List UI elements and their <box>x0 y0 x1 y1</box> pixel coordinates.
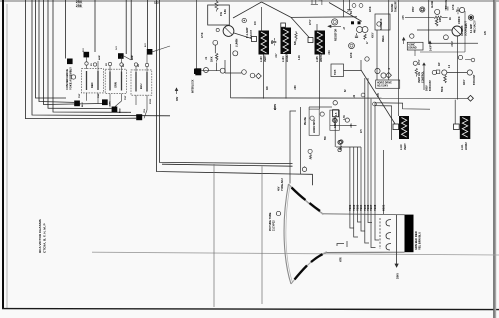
right area riser 2 <box>388 0 390 80</box>
fuse box F1 <box>208 5 230 25</box>
arrow 155V <box>402 38 405 45</box>
svg-text:270V: 270V <box>419 59 421 65</box>
chassis title text <box>38 219 47 253</box>
circled marker C <box>71 75 75 79</box>
svg-text:TILT: TILT <box>98 93 100 98</box>
svg-text:155V: 155V <box>413 6 415 12</box>
svg-text:L104: L104 <box>282 56 285 62</box>
svg-text:1.2K: 1.2K <box>299 55 301 60</box>
tube V5 pins <box>410 30 452 40</box>
CRT wire c <box>357 147 359 214</box>
wire y52 <box>420 51 465 53</box>
svg-text:PIN: PIN <box>272 40 274 44</box>
circled tag V <box>276 211 280 215</box>
svg-text:1MEG: 1MEG <box>383 35 385 42</box>
svg-text:SOUND: SOUND <box>408 48 417 50</box>
svg-text:Y101: Y101 <box>348 204 352 211</box>
convergence small labels <box>79 43 152 113</box>
svg-text:SOUND IF: SOUND IF <box>380 18 383 30</box>
horizontal wire y17 <box>291 16 357 19</box>
svg-text:470K: 470K <box>201 32 204 38</box>
interlock tag <box>194 69 199 74</box>
convergence coil box BLU <box>131 70 152 95</box>
picture tube CRT <box>284 184 404 284</box>
svg-text:H101: H101 <box>382 204 386 211</box>
svg-text:6.8K: 6.8K <box>225 9 227 14</box>
svg-text:L111: L111 <box>461 144 464 150</box>
svg-text:.0047: .0047 <box>451 41 454 47</box>
right text block <box>426 80 433 91</box>
svg-text:47K: 47K <box>377 92 380 97</box>
tube V4 group <box>420 7 474 27</box>
svg-text:SOUND: SOUND <box>392 3 394 12</box>
connector tag 3 <box>102 99 108 105</box>
main bus line right <box>231 97 469 99</box>
svg-text:VERT: VERT <box>404 143 407 150</box>
svg-text:B BOOST: B BOOST <box>474 74 476 85</box>
resistor R20 <box>434 16 448 18</box>
coil L2 <box>281 23 292 62</box>
svg-text:CONVERGENCE: CONVERGENCE <box>65 69 69 90</box>
svg-text:.005: .005 <box>403 15 405 20</box>
stub above bus <box>457 36 459 100</box>
svg-text:WIDTH: WIDTH <box>320 54 323 62</box>
wire bus to L5 tag <box>454 100 456 124</box>
CRT wire h <box>374 103 376 214</box>
right area riser 1 <box>376 30 378 80</box>
interlock blob <box>195 68 201 75</box>
svg-text:82K: 82K <box>295 40 297 45</box>
svg-text:RCA VICTOR CHASSIS: RCA VICTOR CHASSIS <box>38 219 42 253</box>
svg-text:120K: 120K <box>351 52 353 58</box>
connector tag 1 <box>136 114 142 120</box>
diagonal wire 2 <box>329 3 362 22</box>
CRT gun grid steps <box>337 214 380 249</box>
bottom page border <box>2 309 499 310</box>
svg-text:20KV: 20KV <box>397 273 400 279</box>
svg-text:ADJ 15KV: ADJ 15KV <box>377 85 388 88</box>
coil L5 <box>454 116 471 150</box>
connector tag 2 <box>74 101 80 107</box>
svg-text:RESISTOR: RESISTOR <box>335 29 338 41</box>
CRT face arc <box>284 184 291 284</box>
svg-text:560K: 560K <box>442 86 444 92</box>
wire riser E <box>147 0 149 49</box>
cluster diagonal wire 2 <box>124 56 132 60</box>
svg-text:B BOOST: B BOOST <box>446 0 448 9</box>
svg-text:.068: .068 <box>295 85 297 90</box>
resistor R10 <box>215 0 218 12</box>
circled test point <box>332 19 338 25</box>
wire bus 3 <box>36 0 67 98</box>
svg-text:YEL BRN BLU: YEL BRN BLU <box>418 232 422 250</box>
svg-text:T105: T105 <box>335 69 337 75</box>
CRT wire i <box>383 150 385 214</box>
svg-text:HORIZ: HORIZ <box>286 54 289 62</box>
riser x428 <box>429 0 478 43</box>
svg-text:B BOOST: B BOOST <box>429 80 432 91</box>
coil L3 <box>308 24 325 62</box>
convergence lower wires <box>87 93 148 118</box>
CRT neck bottom <box>326 251 404 253</box>
right page edge band <box>493 0 494 318</box>
roof wire left slope <box>233 2 262 18</box>
wire y17 right <box>405 16 434 18</box>
circle tag right edge <box>471 58 475 62</box>
CRT socket lead labels <box>414 231 422 250</box>
terminal cluster with diamond <box>225 60 261 79</box>
diagonal wire to L4 <box>361 70 397 127</box>
diagonal wire 3 <box>291 17 311 39</box>
svg-text:1W: 1W <box>219 12 223 16</box>
bus corner riser <box>230 44 232 98</box>
CRT bottom band dash 1 <box>295 266 308 280</box>
svg-text:4.5MC: 4.5MC <box>408 44 415 47</box>
svg-text:450V: 450V <box>372 32 375 38</box>
horiz transformer block 1 <box>308 107 332 159</box>
svg-text:YEL: YEL <box>144 108 146 113</box>
circled tag on wire bundle <box>338 141 342 145</box>
misc value labels <box>201 1 487 140</box>
wire from L2 to bus <box>285 54 287 99</box>
wire bus 2 <box>32 0 170 116</box>
svg-text:GRN: GRN <box>110 101 112 106</box>
convergence assembly label <box>65 67 73 90</box>
svg-text:INTERLOCK: INTERLOCK <box>193 79 195 93</box>
svg-text:40MFD: 40MFD <box>458 16 461 24</box>
svg-text:4MC 6AC07: 4MC 6AC07 <box>474 20 477 33</box>
mid right circles row <box>365 57 473 90</box>
sound detector box <box>331 64 361 152</box>
top terminal label 254 <box>76 0 84 8</box>
CRT socket <box>405 215 414 253</box>
svg-text:GRN: GRN <box>114 82 118 88</box>
svg-text:220K: 220K <box>370 6 372 12</box>
wire riser B <box>94 0 96 52</box>
CRT wire f <box>367 78 369 214</box>
wire y125 <box>330 124 357 126</box>
top page edge band <box>0 0 499 2</box>
CRT wire labels <box>348 204 386 211</box>
CRT bottom slant <box>291 252 326 284</box>
label box right <box>376 80 400 88</box>
bus junction tags <box>361 93 365 97</box>
svg-text:RED: RED <box>120 108 122 113</box>
CRT gun electrodes <box>386 220 391 251</box>
bus step wire 1 <box>375 103 430 109</box>
page crease line <box>92 252 499 255</box>
CRT neck top <box>323 213 405 216</box>
wire riser A <box>65 0 67 59</box>
CRT wire g <box>370 99 372 214</box>
horiz transformer block 2 <box>330 110 343 150</box>
svg-text:HORIZ DRIVE: HORIZ DRIVE <box>377 83 392 85</box>
circled tag F1 <box>377 22 381 26</box>
CRT wire a <box>349 147 351 214</box>
svg-text:4.7K: 4.7K <box>343 115 346 120</box>
circled tag 31 <box>333 101 337 105</box>
svg-text:AMP: AMP <box>98 55 101 60</box>
top small circles <box>352 4 356 8</box>
svg-text:HORIZ MTG: HORIZ MTG <box>313 119 316 133</box>
deflection yoke label <box>278 178 285 191</box>
svg-text:10K: 10K <box>440 17 442 22</box>
svg-text:TILT: TILT <box>79 93 81 98</box>
svg-text:TAKEOFF: TAKEOFF <box>395 1 398 12</box>
svg-text:B-V: B-V <box>145 43 147 47</box>
takeoff label box <box>407 42 423 50</box>
CRT top slant <box>289 184 323 214</box>
svg-text:YOKE ADJ: YOKE ADJ <box>281 178 284 191</box>
svg-text:Y102: Y102 <box>352 204 356 211</box>
vertical wire x300 <box>299 107 301 174</box>
tube V1 <box>223 26 234 37</box>
capacitor C5 <box>273 38 277 46</box>
wire long run lower to yoke <box>157 0 313 185</box>
svg-text:.001: .001 <box>351 123 353 128</box>
diamond terminal <box>468 95 474 101</box>
svg-text:Y108: Y108 <box>373 204 377 211</box>
CRT bottom slant inner <box>292 251 326 282</box>
svg-text:L103: L103 <box>260 56 263 62</box>
connector tag 6 <box>84 52 90 58</box>
wire drop at x262 <box>261 166 263 304</box>
arrow to left <box>328 25 341 27</box>
CRT top band dash 1 <box>292 188 306 201</box>
wire drop at x214 <box>213 164 215 307</box>
svg-text:CONTROL: CONTROL <box>422 71 425 83</box>
wire bus 7 <box>53 0 131 112</box>
cluster diagonal wire 1 <box>152 46 170 52</box>
wire V1 to L1 tag <box>234 33 252 39</box>
svg-text:470K: 470K <box>452 4 455 10</box>
wire from L1 to bus <box>263 55 265 99</box>
svg-text:6-1 AMP: 6-1 AMP <box>470 24 473 33</box>
CRT HV lead with arrow <box>395 215 398 267</box>
connector tag 7 <box>118 53 124 59</box>
tube cluster V3 <box>344 0 369 71</box>
convergence pot row <box>85 55 149 73</box>
svg-text:ALIGN: ALIGN <box>431 1 434 8</box>
bus step wire 2 <box>375 106 392 140</box>
yoke connection circle <box>302 167 306 171</box>
sound IF box <box>375 14 390 30</box>
roof wire right slope <box>262 2 292 17</box>
left page border <box>2 0 4 309</box>
inner left border line <box>6 4 8 308</box>
circled tag B <box>242 18 246 22</box>
vertical wire x290 <box>290 111 296 184</box>
svg-text:CTC9A, B, F, H, M, P: CTC9A, B, F, H, M, P <box>43 223 47 253</box>
wire long run upper 2 <box>162 164 293 166</box>
coil L1 <box>252 7 270 62</box>
svg-text:.047: .047 <box>275 53 278 58</box>
svg-text:270V: 270V <box>310 19 312 25</box>
svg-text:140V: 140V <box>430 45 433 51</box>
wire from L3 down <box>319 55 321 110</box>
vert linearity label <box>418 71 425 83</box>
wire bus 5 <box>44 0 103 105</box>
svg-text:R-V: R-V <box>83 48 85 52</box>
top connector J2 <box>311 0 322 5</box>
tube V5 big <box>452 26 462 36</box>
svg-text:GRN BLK RED: GRN BLK RED <box>414 231 418 250</box>
capacitor C31 <box>456 7 460 14</box>
svg-text:BLU: BLU <box>139 84 143 89</box>
wire riser D <box>130 0 132 60</box>
arrow 140V <box>429 41 432 47</box>
wire riser to L4 <box>398 0 400 116</box>
coil L4 <box>393 116 409 150</box>
svg-text:21CYP22: 21CYP22 <box>273 220 276 231</box>
svg-text:G-V: G-V <box>116 46 118 50</box>
CRT top band dash 2 <box>310 203 321 211</box>
svg-text:LUMIN: LUMIN <box>235 39 239 47</box>
wire riser C <box>125 0 127 54</box>
svg-text:390V: 390V <box>464 79 466 85</box>
arrow marker 38V <box>175 88 178 94</box>
CRT top slant inner <box>290 186 323 215</box>
picture tube label <box>269 212 276 231</box>
CRT wire b <box>353 147 355 214</box>
convergence coil box GRN <box>105 69 126 93</box>
wire long run upper <box>160 0 293 164</box>
wire bus 1 <box>26 0 137 119</box>
wire x465 <box>464 11 466 52</box>
riser at x343 <box>343 0 345 17</box>
CRT face arc inner <box>286 186 293 283</box>
svg-text:HTR: HTR <box>341 257 343 262</box>
svg-text:PHASE: PHASE <box>304 117 307 125</box>
connector tag 8 <box>147 49 153 55</box>
resistor R15 <box>295 31 297 41</box>
svg-text:TILT: TILT <box>125 95 127 100</box>
svg-text:RED: RED <box>90 82 94 88</box>
svg-text:L105: L105 <box>316 56 319 62</box>
svg-text:BLU: BLU <box>82 102 84 107</box>
svg-text:Y107: Y107 <box>369 204 373 211</box>
CRT wire d <box>360 147 362 214</box>
wire bus 4 <box>39 0 74 102</box>
svg-text:38V: 38V <box>176 96 179 101</box>
CRT wire e <box>364 78 366 214</box>
svg-text:1K: 1K <box>450 17 452 20</box>
svg-text:L110: L110 <box>400 144 403 150</box>
svg-text:VERT: VERT <box>264 55 267 62</box>
svg-text:47K: 47K <box>484 30 487 35</box>
CRT bottom band dash 2 <box>311 254 323 262</box>
svg-text:AMP: AMP <box>131 55 134 60</box>
connector tag 4 <box>112 107 118 113</box>
svg-text:.033: .033 <box>329 50 331 55</box>
interlock riser wire <box>196 0 198 69</box>
svg-text:Y103: Y103 <box>356 204 360 211</box>
convergence coil box RED <box>82 69 104 93</box>
svg-text:R103: R103 <box>150 98 152 104</box>
svg-text:Y104: Y104 <box>359 204 363 211</box>
wire bus 6 <box>48 0 112 109</box>
connector tag 5 <box>67 59 73 65</box>
svg-text:HORIZ: HORIZ <box>465 142 468 150</box>
svg-text:180K: 180K <box>212 56 214 62</box>
small tube cluster V2 <box>202 40 238 73</box>
